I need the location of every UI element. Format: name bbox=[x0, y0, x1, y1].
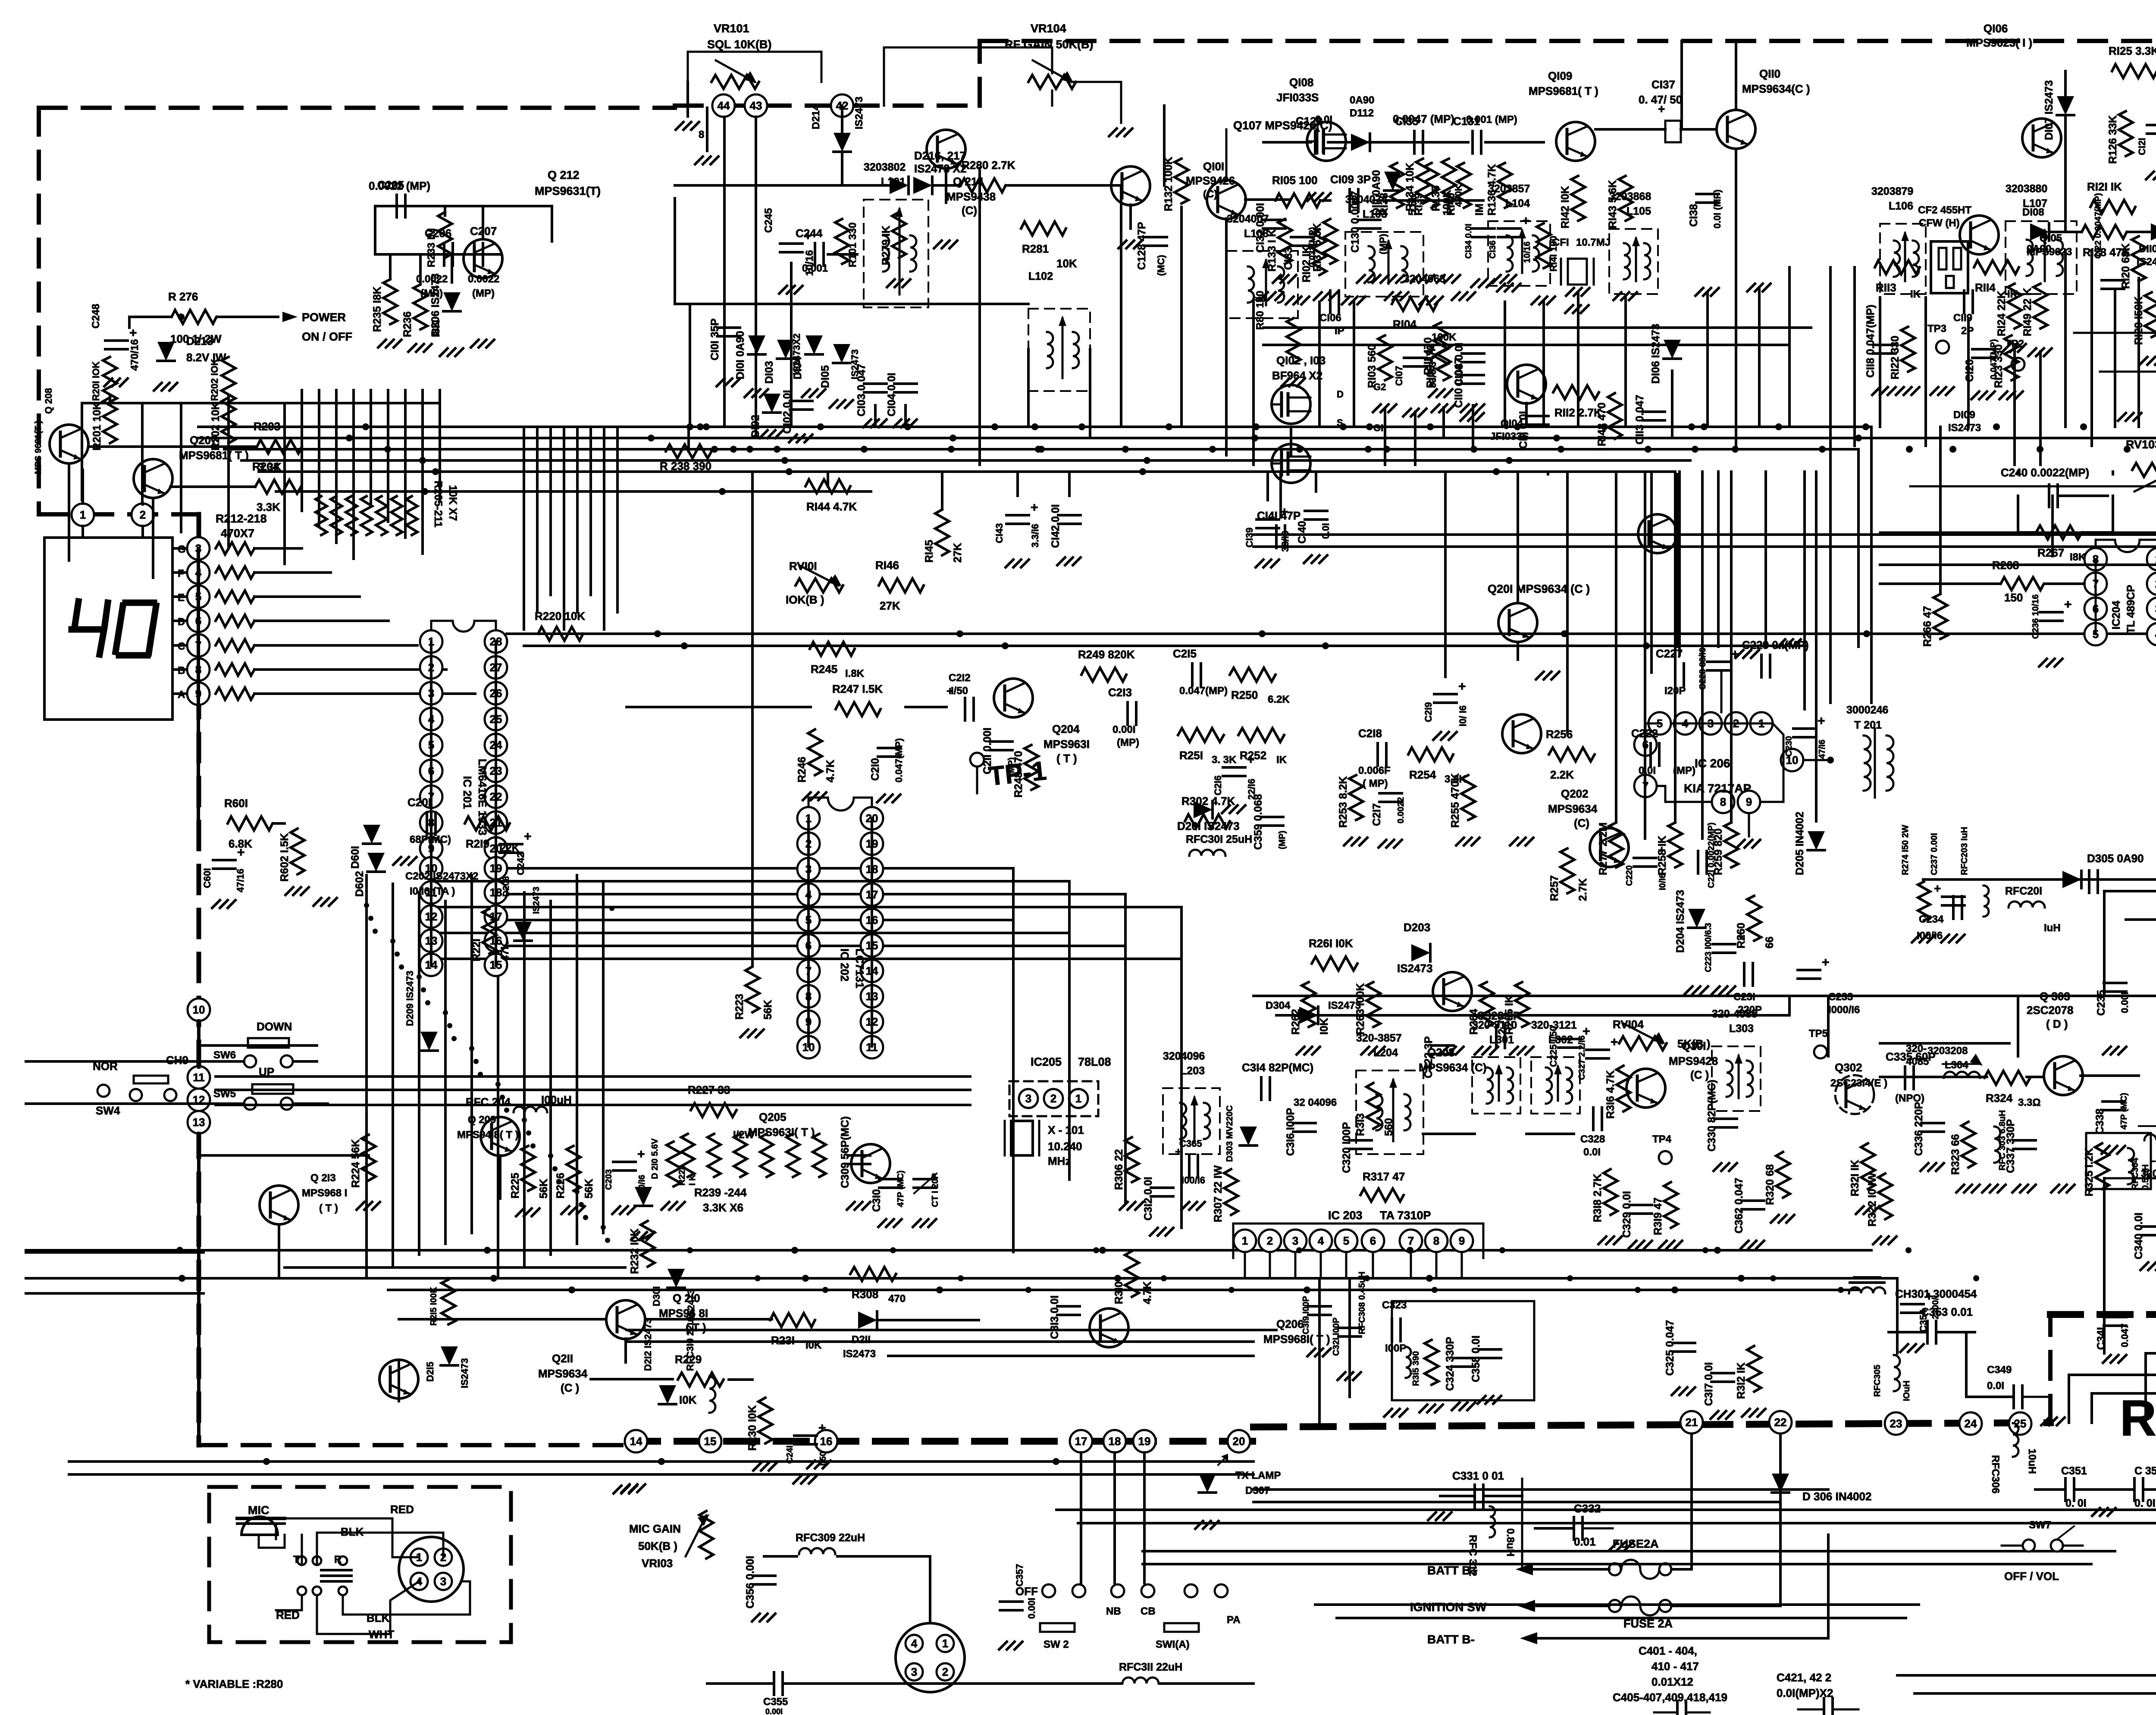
svg-text:0. 0I: 0. 0I bbox=[2134, 1497, 2156, 1509]
svg-text:IOK(B ): IOK(B ) bbox=[786, 593, 824, 606]
svg-text:CI37: CI37 bbox=[1651, 78, 1675, 91]
svg-text:8: 8 bbox=[699, 129, 704, 141]
svg-text:R20I IOK: R20I IOK bbox=[91, 361, 101, 401]
svg-text:44: 44 bbox=[718, 99, 730, 112]
svg-text:CI36: CI36 bbox=[1488, 241, 1498, 259]
svg-text:DI05: DI05 bbox=[819, 365, 831, 388]
svg-text:R323 66: R323 66 bbox=[1949, 1134, 1962, 1175]
svg-text:2200/I: 2200/I bbox=[1931, 1295, 1940, 1319]
svg-text:C245: C245 bbox=[763, 208, 774, 233]
svg-text:D205 IN4002: D205 IN4002 bbox=[1794, 812, 1806, 875]
svg-text:C2I7: C2I7 bbox=[1371, 803, 1383, 826]
svg-text:10.240: 10.240 bbox=[1048, 1140, 1082, 1153]
svg-text:D2I2 IS2473: D2I2 IS2473 bbox=[642, 1318, 653, 1371]
svg-text:(C): (C) bbox=[1203, 188, 1217, 200]
svg-text:(MP): (MP) bbox=[1278, 831, 1287, 849]
svg-text:C337 330P: C337 330P bbox=[2005, 1119, 2017, 1173]
svg-text:C354: C354 bbox=[1918, 1309, 1929, 1332]
svg-text:+: + bbox=[1458, 679, 1466, 694]
svg-text:+: + bbox=[1658, 102, 1665, 116]
svg-text:CII3 0.047: CII3 0.047 bbox=[1634, 395, 1646, 444]
svg-text:IGNITION SW: IGNITION SW bbox=[1410, 1600, 1487, 1614]
svg-text:R3I9 47: R3I9 47 bbox=[1652, 1197, 1664, 1235]
svg-text:470: 470 bbox=[888, 1293, 906, 1305]
svg-text:Q2II: Q2II bbox=[552, 1352, 573, 1365]
svg-text:I00/I6: I00/I6 bbox=[1181, 1175, 1205, 1186]
svg-text:0.8uH: 0.8uH bbox=[1504, 1528, 1516, 1556]
svg-text:CT I 20P: CT I 20P bbox=[931, 1173, 940, 1207]
svg-text:Q 2I3: Q 2I3 bbox=[310, 1172, 336, 1184]
svg-text:I0K: I0K bbox=[679, 1393, 697, 1406]
svg-text:NB: NB bbox=[1106, 1605, 1121, 1617]
svg-text:RI49 22 K: RI49 22 K bbox=[2021, 288, 2034, 336]
svg-text:4.7K: 4.7K bbox=[1141, 1281, 1153, 1304]
svg-text:50K(B ): 50K(B ) bbox=[638, 1540, 677, 1552]
svg-text:R260: R260 bbox=[1735, 923, 1747, 948]
svg-text:R212-218: R212-218 bbox=[216, 512, 267, 525]
svg-text:CI32 0.00I: CI32 0.00I bbox=[1254, 203, 1266, 253]
svg-text:R257: R257 bbox=[1548, 875, 1561, 901]
svg-text:470/16: 470/16 bbox=[129, 339, 141, 371]
svg-text:I000/I6: I000/I6 bbox=[1828, 1004, 1860, 1016]
svg-text:C2I6: C2I6 bbox=[1213, 776, 1223, 795]
svg-text:DI06 IS2473: DI06 IS2473 bbox=[1650, 324, 1662, 384]
svg-text:3: 3 bbox=[1025, 1092, 1031, 1105]
svg-text:CFW (H): CFW (H) bbox=[1919, 217, 1960, 229]
svg-text:RI46: RI46 bbox=[875, 559, 899, 572]
svg-text:C340 0.0I: C340 0.0I bbox=[2133, 1213, 2145, 1259]
svg-text:C335 60P: C335 60P bbox=[1886, 1050, 1936, 1063]
svg-text:RFC203 IuH: RFC203 IuH bbox=[1960, 827, 1969, 875]
svg-text:R3I3: R3I3 bbox=[1354, 1113, 1366, 1136]
svg-text:RI05 100: RI05 100 bbox=[1272, 174, 1318, 187]
svg-text:C362 0.047: C362 0.047 bbox=[1733, 1178, 1745, 1233]
svg-text:10K X7: 10K X7 bbox=[447, 485, 459, 521]
svg-text:SW 2: SW 2 bbox=[1044, 1639, 1069, 1650]
svg-text:TP5: TP5 bbox=[1809, 1028, 1828, 1039]
svg-text:IS2473X2: IS2473X2 bbox=[791, 333, 802, 375]
svg-text:R254: R254 bbox=[1409, 768, 1436, 781]
svg-text:0.001 (MP): 0.001 (MP) bbox=[1466, 114, 1517, 125]
svg-text:68P(MC): 68P(MC) bbox=[410, 834, 451, 845]
svg-text:IS2473: IS2473 bbox=[2137, 256, 2156, 268]
svg-text:TL 489CP: TL 489CP bbox=[2125, 585, 2137, 634]
svg-text:+: + bbox=[637, 1147, 645, 1161]
svg-text:C2I5: C2I5 bbox=[1173, 647, 1197, 660]
svg-text:R247 I.5K: R247 I.5K bbox=[832, 682, 883, 695]
svg-text:18: 18 bbox=[1109, 1435, 1121, 1448]
svg-text:C203: C203 bbox=[604, 1169, 614, 1190]
svg-text:SW7: SW7 bbox=[2029, 1519, 2051, 1531]
svg-text:3203879: 3203879 bbox=[1871, 185, 1913, 197]
svg-text:0.047(MP): 0.047(MP) bbox=[1179, 685, 1228, 697]
svg-text:27K: 27K bbox=[880, 599, 900, 612]
svg-text:0A90: 0A90 bbox=[1350, 94, 1374, 106]
svg-text:21: 21 bbox=[1686, 1416, 1698, 1429]
svg-text:R226: R226 bbox=[555, 1173, 567, 1199]
svg-text:DOWN: DOWN bbox=[257, 1020, 292, 1033]
svg-text:IS2473: IS2473 bbox=[853, 97, 865, 129]
svg-text:RF GAIN 50K(B): RF GAIN 50K(B) bbox=[1005, 38, 1094, 51]
svg-text:C 350: C 350 bbox=[2134, 1465, 2156, 1477]
svg-text:QI06: QI06 bbox=[1984, 22, 2008, 35]
svg-text:RFC3II 22uH: RFC3II 22uH bbox=[1119, 1661, 1182, 1673]
svg-text:RI24 22K: RI24 22K bbox=[1996, 291, 2008, 336]
svg-text:0.0022 (MP): 0.0022 (MP) bbox=[369, 179, 430, 192]
svg-text:C3I0: C3I0 bbox=[871, 1189, 883, 1212]
svg-text:D305 0A90: D305 0A90 bbox=[2087, 852, 2144, 865]
svg-text:R3I6 4.7K: R3I6 4.7K bbox=[1604, 1070, 1617, 1119]
svg-text:3: 3 bbox=[911, 1665, 917, 1678]
svg-text:MPS9634: MPS9634 bbox=[1548, 802, 1598, 815]
svg-text:C329 0.0I: C329 0.0I bbox=[1621, 1191, 1633, 1238]
svg-text:BATT B-: BATT B- bbox=[1427, 1633, 1475, 1646]
svg-text:R204: R204 bbox=[252, 460, 279, 473]
svg-text:56K: 56K bbox=[762, 1000, 774, 1020]
svg-text:VR104: VR104 bbox=[1031, 22, 1066, 35]
svg-text:R126 33K: R126 33K bbox=[2107, 115, 2119, 164]
svg-text:R202 IOK: R202 IOK bbox=[209, 359, 220, 401]
svg-text:Q202: Q202 bbox=[1561, 787, 1589, 800]
svg-text:R227 33: R227 33 bbox=[688, 1083, 730, 1096]
svg-text:D214: D214 bbox=[810, 104, 822, 129]
svg-text:Q207: Q207 bbox=[190, 434, 217, 447]
svg-text:TP4: TP4 bbox=[1652, 1133, 1672, 1145]
svg-text:3.3K: 3.3K bbox=[257, 501, 280, 513]
svg-text:Q 208: Q 208 bbox=[43, 388, 54, 414]
svg-text:CI04 0.0I: CI04 0.0I bbox=[886, 373, 898, 416]
svg-text:C357: C357 bbox=[1014, 1564, 1025, 1587]
svg-text:CB: CB bbox=[1141, 1605, 1156, 1617]
svg-text:IOuH: IOuH bbox=[1902, 1380, 1912, 1401]
svg-text:RVI0I: RVI0I bbox=[789, 560, 817, 573]
svg-text:3203802: 3203802 bbox=[864, 161, 906, 173]
svg-text:CII0 0.047: CII0 0.047 bbox=[1453, 358, 1465, 408]
svg-text:0.047: 0.047 bbox=[2119, 1324, 2130, 1347]
svg-text:IC 203: IC 203 bbox=[1328, 1209, 1363, 1222]
svg-text:DII0: DII0 bbox=[2139, 243, 2156, 255]
svg-text:47/I6: 47/I6 bbox=[1818, 740, 1827, 759]
svg-text:IM: IM bbox=[1473, 203, 1485, 216]
svg-text:2: 2 bbox=[942, 1665, 948, 1678]
svg-text:R250: R250 bbox=[1231, 689, 1258, 701]
svg-text:C324 330P: C324 330P bbox=[1444, 1337, 1456, 1391]
svg-text:11: 11 bbox=[193, 1071, 205, 1084]
svg-text:4.7K: 4.7K bbox=[824, 760, 837, 782]
svg-text:2: 2 bbox=[1267, 1234, 1273, 1247]
svg-text:C240 0.0022(MP): C240 0.0022(MP) bbox=[2001, 466, 2089, 479]
svg-text:9: 9 bbox=[1459, 1234, 1465, 1247]
svg-text:MIC: MIC bbox=[248, 1504, 269, 1517]
svg-text:0.5 µH: 0.5 µH bbox=[2141, 1164, 2150, 1190]
svg-text:L102: L102 bbox=[1028, 270, 1053, 282]
svg-text:Q 2I0: Q 2I0 bbox=[673, 1292, 700, 1305]
svg-text:+: + bbox=[1822, 955, 1830, 970]
svg-text:5: 5 bbox=[1343, 1234, 1349, 1247]
svg-text:Q 209: Q 209 bbox=[468, 1114, 496, 1126]
svg-text:C338: C338 bbox=[2094, 1108, 2106, 1134]
svg-text:3: 3 bbox=[1292, 1234, 1298, 1247]
svg-text:R245: R245 bbox=[811, 663, 837, 676]
svg-text:( MP): ( MP) bbox=[1363, 778, 1388, 789]
svg-text:1: 1 bbox=[80, 508, 86, 521]
svg-text:C401 - 404,: C401 - 404, bbox=[1639, 1644, 1697, 1657]
svg-text:CI22 0.0047(MP): CI22 0.0047(MP) bbox=[2093, 193, 2103, 259]
svg-text:MPS963I( T ): MPS963I( T ) bbox=[748, 1126, 815, 1139]
svg-text:D602: D602 bbox=[354, 871, 366, 897]
svg-text:(C): (C) bbox=[962, 204, 977, 217]
svg-text:3: 3 bbox=[440, 1575, 446, 1588]
svg-text:R136 4.7K: R136 4.7K bbox=[1486, 164, 1498, 216]
svg-text:14: 14 bbox=[630, 1435, 642, 1448]
svg-text:RI45: RI45 bbox=[923, 540, 935, 563]
svg-text:SW5: SW5 bbox=[213, 1088, 236, 1100]
svg-text:R3I8 2.7K: R3I8 2.7K bbox=[1592, 1174, 1604, 1222]
svg-text:C223 I00/6.3: C223 I00/6.3 bbox=[1704, 923, 1713, 972]
svg-text:L304: L304 bbox=[1945, 1059, 1968, 1071]
svg-text:IC 201: IC 201 bbox=[461, 776, 474, 809]
svg-text:IC 206: IC 206 bbox=[1695, 757, 1730, 770]
svg-text:C230: C230 bbox=[1784, 736, 1794, 757]
svg-text:MPS968 I: MPS968 I bbox=[302, 1187, 347, 1199]
svg-text:CI39: CI39 bbox=[1244, 528, 1255, 548]
svg-text:D60I: D60I bbox=[349, 846, 361, 869]
svg-text:GI: GI bbox=[1373, 422, 1383, 433]
svg-text:R25I: R25I bbox=[1179, 749, 1203, 762]
svg-text:C236 10/16: C236 10/16 bbox=[2031, 595, 2040, 639]
svg-text:C237 0.00I: C237 0.00I bbox=[1930, 833, 1939, 875]
svg-text:RI2I IK: RI2I IK bbox=[2087, 180, 2122, 193]
svg-text:1: 1 bbox=[942, 1637, 948, 1650]
svg-text:0.00I: 0.00I bbox=[765, 1707, 783, 1715]
svg-text:G2: G2 bbox=[1373, 382, 1386, 392]
svg-text:CF2 455HT: CF2 455HT bbox=[1918, 204, 1971, 216]
svg-text:CI03 0.047: CI03 0.047 bbox=[856, 364, 868, 416]
svg-text:C309 56P(MC): C309 56P(MC) bbox=[839, 1116, 851, 1188]
svg-text:R253 8.2K: R253 8.2K bbox=[1337, 776, 1349, 828]
svg-text:R205-211: R205-211 bbox=[432, 481, 444, 528]
svg-text:QI0I: QI0I bbox=[1203, 160, 1224, 173]
svg-text:C2I3: C2I3 bbox=[1108, 686, 1132, 699]
svg-text:D208: D208 bbox=[501, 876, 511, 897]
svg-text:2SC2078: 2SC2078 bbox=[2027, 1004, 2073, 1017]
svg-text:0.0047 (MP): 0.0047 (MP) bbox=[1393, 113, 1454, 125]
svg-text:410 - 417: 410 - 417 bbox=[1651, 1660, 1699, 1673]
svg-text:32 04096: 32 04096 bbox=[1294, 1097, 1337, 1108]
svg-text:CI2I: CI2I bbox=[2137, 138, 2147, 155]
svg-text:47P (MC): 47P (MC) bbox=[2119, 1093, 2129, 1130]
svg-text:R248 470: R248 470 bbox=[1012, 751, 1025, 798]
svg-text:CI42 0.0I: CI42 0.0I bbox=[1050, 504, 1062, 548]
svg-text:C32I I00P: C32I I00P bbox=[1332, 1318, 1341, 1356]
svg-text:27K: 27K bbox=[952, 543, 964, 563]
svg-text:RFC305: RFC305 bbox=[1873, 1365, 1882, 1397]
svg-text:L203: L203 bbox=[1180, 1065, 1205, 1077]
svg-text:R232 I0K: R232 I0K bbox=[629, 1228, 641, 1274]
svg-text:47P (MC): 47P (MC) bbox=[896, 1170, 906, 1207]
svg-text:R249 820K: R249 820K bbox=[1078, 648, 1135, 661]
svg-text:IK: IK bbox=[1276, 754, 1287, 766]
svg-text:CII8 0.047(MP): CII8 0.047(MP) bbox=[1865, 304, 1877, 378]
svg-text:Q 212: Q 212 bbox=[548, 169, 580, 182]
svg-text:D2I5: D2I5 bbox=[425, 1362, 436, 1382]
svg-text:78L08: 78L08 bbox=[1078, 1055, 1111, 1068]
svg-text:( D ): ( D ) bbox=[2046, 1017, 2068, 1030]
svg-text:OFF: OFF bbox=[1015, 1585, 1038, 1598]
svg-text:R266 47: R266 47 bbox=[1921, 606, 1934, 647]
svg-text:C328: C328 bbox=[1580, 1133, 1605, 1145]
svg-text:SWI(A): SWI(A) bbox=[1156, 1639, 1190, 1650]
svg-text:C2II 0.00I: C2II 0.00I bbox=[981, 728, 993, 774]
svg-text:C320 I00P: C320 I00P bbox=[1341, 1122, 1353, 1173]
svg-text:MIC GAIN: MIC GAIN bbox=[629, 1522, 681, 1535]
svg-text:0.0I: 0.0I bbox=[1583, 1146, 1601, 1158]
svg-text:I0/I6 (TA ): I0/I6 (TA ) bbox=[410, 886, 455, 897]
svg-text:6: 6 bbox=[1370, 1234, 1376, 1247]
svg-text:8: 8 bbox=[1720, 795, 1726, 808]
svg-text:R277 2.2M: R277 2.2M bbox=[1597, 823, 1609, 875]
svg-text:MHz: MHz bbox=[1048, 1155, 1071, 1167]
svg-text:( T ): ( T ) bbox=[319, 1202, 338, 1214]
svg-text:MPS9681( T ): MPS9681( T ) bbox=[179, 449, 249, 462]
svg-text:D303 MV220C: D303 MV220C bbox=[1225, 1105, 1235, 1162]
svg-text:0.00I: 0.00I bbox=[1112, 724, 1135, 735]
svg-text:RI23 330: RI23 330 bbox=[1993, 344, 2005, 388]
svg-text:R281: R281 bbox=[1022, 242, 1049, 255]
svg-text:R320 68: R320 68 bbox=[1764, 1164, 1776, 1205]
svg-text:R302 4.7K: R302 4.7K bbox=[1181, 795, 1235, 807]
svg-text:+: + bbox=[1522, 214, 1530, 228]
svg-text:RFC309 22uH: RFC309 22uH bbox=[796, 1532, 865, 1544]
svg-text:24: 24 bbox=[1965, 1417, 1977, 1430]
svg-text:Q302: Q302 bbox=[1835, 1061, 1862, 1074]
svg-text:(C ): (C ) bbox=[561, 1381, 579, 1394]
svg-text:RI43 5.6K: RI43 5.6K bbox=[1607, 180, 1619, 228]
svg-text:R267: R267 bbox=[2037, 546, 2064, 559]
svg-text:47K: 47K bbox=[499, 942, 511, 961]
svg-text:0.0I: 0.0I bbox=[1320, 523, 1331, 539]
svg-text:66: 66 bbox=[1764, 936, 1776, 948]
svg-text:2.2K: 2.2K bbox=[1550, 768, 1574, 781]
svg-text:IS2473: IS2473 bbox=[1328, 1000, 1361, 1011]
svg-text:RI38: RI38 bbox=[1378, 193, 1390, 216]
svg-text:RII4: RII4 bbox=[1975, 281, 1996, 294]
svg-text:2: 2 bbox=[140, 508, 146, 521]
svg-text:KIA 7217AP: KIA 7217AP bbox=[1684, 782, 1751, 795]
svg-text:2: 2 bbox=[1050, 1092, 1056, 1105]
svg-text:IK: IK bbox=[1910, 288, 1921, 300]
svg-text:C322 3P: C322 3P bbox=[1423, 1036, 1435, 1078]
svg-text:* VARIABLE :R280: * VARIABLE :R280 bbox=[185, 1677, 283, 1690]
svg-text:0.001: 0.001 bbox=[802, 263, 828, 274]
svg-text:R223: R223 bbox=[733, 994, 746, 1020]
svg-text:R26I I0K: R26I I0K bbox=[1309, 937, 1353, 950]
svg-text:CFI: CFI bbox=[1552, 237, 1569, 248]
svg-text:56K: 56K bbox=[538, 1179, 550, 1199]
svg-text:SW6: SW6 bbox=[213, 1049, 236, 1061]
svg-text:R246: R246 bbox=[796, 757, 808, 782]
svg-text:0.0022: 0.0022 bbox=[468, 273, 499, 285]
svg-text:Q206: Q206 bbox=[1276, 1318, 1304, 1330]
svg-text:VRI03: VRI03 bbox=[642, 1557, 673, 1570]
svg-text:MPS9631(T): MPS9631(T) bbox=[535, 185, 601, 197]
svg-text:R 276: R 276 bbox=[168, 290, 198, 303]
svg-text:Q20I MPS9634 (C ): Q20I MPS9634 (C ) bbox=[1488, 582, 1590, 595]
svg-text:R324: R324 bbox=[1986, 1092, 2013, 1105]
svg-text:3203880: 3203880 bbox=[2006, 183, 2047, 195]
svg-text:X - 101: X - 101 bbox=[1048, 1124, 1084, 1136]
svg-text:CI09 3P: CI09 3P bbox=[1330, 173, 1371, 186]
svg-text:MPS 9681(T ): MPS 9681(T ) bbox=[34, 421, 43, 474]
svg-text:4: 4 bbox=[1318, 1234, 1324, 1247]
svg-text:CI38: CI38 bbox=[1688, 204, 1700, 227]
svg-text:3.3Ω: 3.3Ω bbox=[2018, 1097, 2041, 1108]
svg-text:I00uH: I00uH bbox=[541, 1093, 572, 1106]
svg-text:150: 150 bbox=[2004, 591, 2023, 604]
svg-text:C336 220P: C336 220P bbox=[1913, 1102, 1925, 1156]
svg-text:C242: C242 bbox=[515, 852, 526, 875]
svg-text:DI0I 0A90: DI0I 0A90 bbox=[734, 331, 746, 379]
svg-text:C351: C351 bbox=[2061, 1465, 2087, 1477]
svg-text:D213: D213 bbox=[186, 335, 213, 347]
svg-text:D30I: D30I bbox=[651, 1286, 662, 1306]
svg-text:RFC30I 25uH: RFC30I 25uH bbox=[1186, 833, 1252, 845]
svg-text:C225 I/50: C225 I/50 bbox=[1548, 1026, 1559, 1067]
svg-text:R236: R236 bbox=[401, 311, 414, 337]
svg-text:I0/ I6: I0/ I6 bbox=[1457, 705, 1468, 726]
svg-text:4: 4 bbox=[911, 1637, 918, 1650]
svg-text:R230 I0K: R230 I0K bbox=[746, 1405, 758, 1451]
svg-text:+: + bbox=[2064, 598, 2072, 612]
svg-text:+: + bbox=[818, 1421, 826, 1435]
svg-text:+: + bbox=[1031, 501, 1038, 515]
svg-text:C331 0 01: C331 0 01 bbox=[1452, 1469, 1504, 1482]
svg-text:1: 1 bbox=[1242, 1234, 1248, 1247]
svg-text:TA 7310P: TA 7310P bbox=[1380, 1209, 1431, 1222]
svg-text:C421, 42 2: C421, 42 2 bbox=[1777, 1671, 1831, 1684]
svg-text:C202 IS2473X2: C202 IS2473X2 bbox=[405, 870, 478, 882]
svg-text:23: 23 bbox=[1890, 1417, 1902, 1430]
svg-text:R602 I.5K: R602 I.5K bbox=[279, 833, 291, 882]
svg-text:R258 IK: R258 IK bbox=[1656, 836, 1668, 875]
svg-text:R32I IK: R32I IK bbox=[1849, 1160, 1861, 1196]
svg-text:R308: R308 bbox=[852, 1288, 878, 1301]
svg-text:C234: C234 bbox=[1919, 914, 1944, 925]
svg-text:R125=3.9k: R125=3.9k bbox=[2120, 1390, 2156, 1447]
svg-text:RI22 330: RI22 330 bbox=[1889, 336, 1901, 379]
svg-text:C20I: C20I bbox=[407, 796, 431, 809]
svg-text:3.3K X6: 3.3K X6 bbox=[703, 1201, 743, 1214]
svg-text:D206 IS2473: D206 IS2473 bbox=[429, 273, 442, 336]
svg-text:(MC): (MC) bbox=[1156, 255, 1166, 276]
svg-text:RVI04: RVI04 bbox=[1613, 1018, 1644, 1031]
svg-text:L106: L106 bbox=[1889, 200, 1913, 212]
svg-text:RI28 47K: RI28 47K bbox=[2083, 246, 2130, 259]
svg-text:0A90: 0A90 bbox=[2027, 243, 2051, 255]
svg-text:MPS9634(C ): MPS9634(C ) bbox=[1742, 82, 1810, 95]
svg-text:DI09: DI09 bbox=[1953, 409, 1975, 421]
svg-text:560: 560 bbox=[1383, 1118, 1395, 1136]
svg-text:C2I9: C2I9 bbox=[1423, 702, 1434, 722]
svg-text:10K: 10K bbox=[1056, 257, 1077, 270]
svg-text:VR101: VR101 bbox=[714, 22, 749, 35]
svg-text:0.0I: 0.0I bbox=[1987, 1380, 2004, 1392]
svg-text:R259 820: R259 820 bbox=[1712, 829, 1724, 875]
svg-text:10: 10 bbox=[193, 1003, 205, 1016]
svg-text:R 238 390: R 238 390 bbox=[660, 460, 711, 473]
svg-text:C2I2: C2I2 bbox=[949, 672, 971, 684]
svg-text:0. 0I: 0. 0I bbox=[2065, 1497, 2087, 1509]
